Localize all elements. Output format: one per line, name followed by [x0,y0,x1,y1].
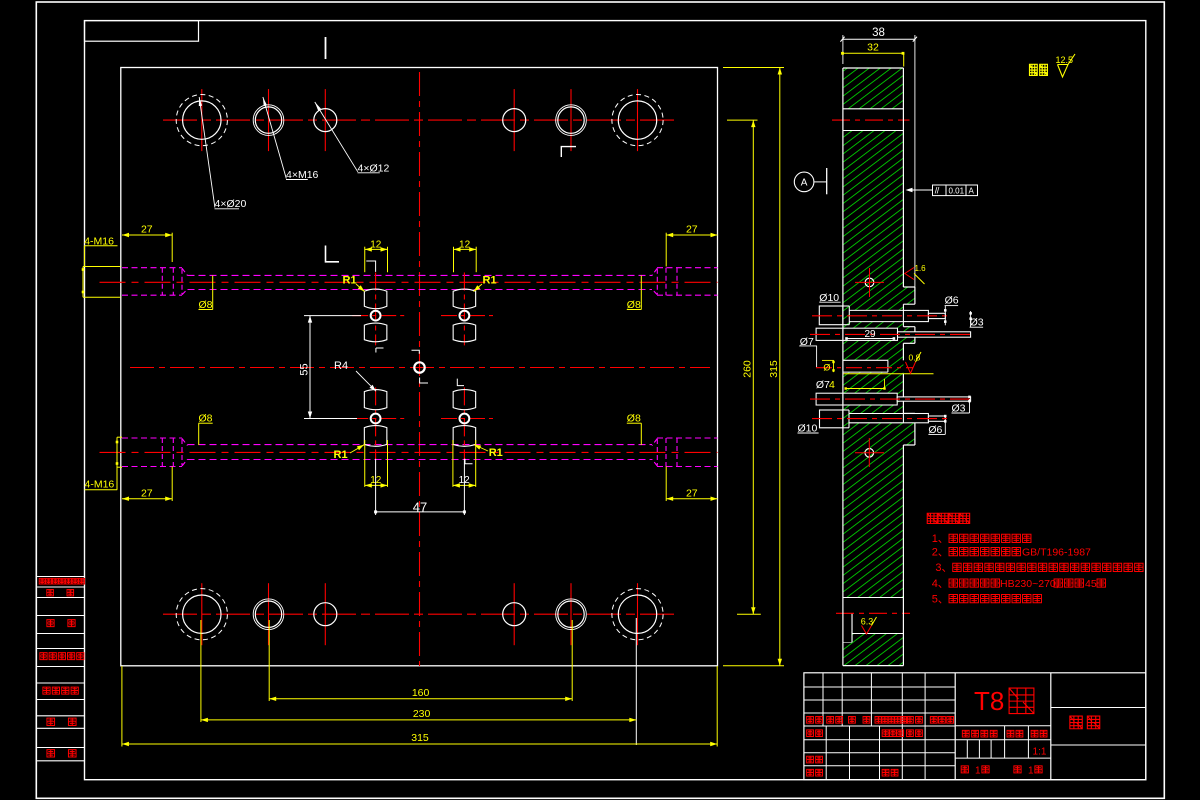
core pin upper ring x=375.6 [371,311,381,321]
M16 side hole end box (right) row y=452.4 [665,438,667,467]
svg-text:29: 29 [864,329,876,340]
title block vertical lines rows5-8 [825,726,827,780]
hole 4xO20 at (201.8,120.1) with counterbore [183,101,221,139]
section hole band bottom [842,598,905,634]
datum A symbol [794,172,814,192]
hole centerline vertical x=268.5 row 120.1 [268,89,270,151]
svg-text:R1: R1 [489,447,503,459]
core pin lower barrel 2 x=464.4 [453,426,476,447]
sprue circle bottom (section) [865,449,874,458]
top runner O8 hidden lines [188,274,653,276]
title row4 labels: biaoji chushu fenqu genggai qianming nianyueri [807,717,814,724]
core pin ring centerline horizontals x=375.6 [352,315,408,317]
M16 side hole thread lines (right) row y=282.3 [657,267,718,269]
dim 315 bottom [121,666,123,747]
left margin column rows [36,576,84,578]
core pin lower barrel 1 x=464.4 [453,390,476,410]
hole centerline vertical x=637.5 row 120.1 [637,89,639,151]
leader 4xO12 [315,102,358,172]
svg-text:45: 45 [1085,578,1097,590]
dim 12 bottom-left pin [364,440,366,487]
svg-text:12: 12 [459,239,471,250]
svg-text:T8: T8 [974,686,1004,716]
ROW A right stub O6 [903,310,928,321]
svg-text:1: 1 [975,766,981,777]
hole 4xM16 at (268.5,120.1) [255,107,281,133]
dim 27 bottom-right [666,498,717,500]
svg-text:4-M16: 4-M16 [85,478,115,490]
plan center horizontal centerline [130,367,710,369]
hole row centerline y=614.2 [163,613,677,615]
center slot [842,360,888,372]
core pin lower ring x=375.6 [371,414,381,424]
gate corner mark near center 2 [420,378,428,384]
svg-text:Ø7: Ø7 [816,379,830,391]
title row5: sheji biaozhunhua qianming [807,730,814,737]
M16 side hole end box (left) row y=452.4 [161,438,163,467]
ROW B' right stub O3 [897,397,970,401]
cap mini-dim bottom-left [116,437,118,490]
dim 260 right side [727,119,758,121]
sheets: gong 1 zhang di 1 zhang [961,766,968,773]
M16 side hole thread lines (right) row y=452.4 [657,437,718,439]
core pin column x=464.4 centerline (red) [463,273,465,346]
svg-text:5、: 5、 [932,594,949,606]
svg-text:Ø6: Ø6 [945,295,959,307]
svg-text:260: 260 [742,360,754,378]
svg-text:230: 230 [413,708,431,720]
svg-text:27: 27 [141,487,153,499]
hole centerline vertical x=268.5 row 614.2 [268,583,270,645]
plan view plate outline [121,68,718,666]
section hole band top (O12) [842,109,905,131]
tech requirements title [927,513,937,523]
core pin lower ring x=464.4 [460,414,470,424]
svg-text:315: 315 [411,732,429,744]
ROW A right stub O3 [928,313,945,318]
core pin lower barrel 1 x=375.6 [364,390,387,410]
hole 4xO12 at (514.2,120.1) [503,109,526,132]
ROW B' band y=399.1 [816,393,897,405]
M16 side hole thread lines (left) row y=452.4 [122,437,182,439]
bottom runner centerline (red) [100,451,718,453]
ROW B centerline [810,333,975,335]
ROW B right stub O3 [898,332,971,337]
center slot mini-dim (yellow) [822,359,834,361]
core pin upper barrel 1 x=375.6 [364,289,387,309]
svg-text:160: 160 [412,687,430,699]
leader 4xM16 [263,97,286,179]
title block right horizontals [1051,707,1146,709]
svg-text:32: 32 [867,42,879,54]
svg-text:HB230~270,: HB230~270, [1000,578,1059,590]
svg-text:R4: R4 [334,360,348,372]
dim 38 section [843,38,915,40]
surface mark on right face [905,268,914,280]
hole 4xO20 at (637.5,614.2) with counterbore [618,595,656,633]
section bottom notch [851,613,853,642]
core pin column x=375.6 centerline (red) [375,273,377,346]
dim 27 bottom-left [122,498,172,500]
svg-text:R1: R1 [483,275,497,287]
dim 55 vertical [304,315,361,317]
section hole band bottom centerline [836,612,910,614]
svg-text:1、: 1、 [932,533,949,545]
hole row centerline y=120.1 [163,119,677,121]
ROW B band y=334.4 [816,328,897,340]
runner taper (left) row y=452.4 [182,439,188,446]
svg-text:55: 55 [299,363,311,375]
hole 4xO12 at (325.3,120.1) [314,109,337,132]
section flange lower hatched [903,413,915,445]
top runner centerline (red) [100,281,718,283]
dim 27 top-right [666,234,717,236]
hole 4xO12 at (325.3,614.2) [314,603,337,626]
section mark corner top middle [561,147,576,157]
hole centerline vertical x=325.3 row 614.2 [324,583,326,645]
title block outline [804,673,1146,780]
svg-text:47: 47 [413,500,427,515]
section mark L [326,246,340,262]
runner taper (left) row y=282.3 [182,268,188,275]
svg-text:4×Ø20: 4×Ø20 [215,198,247,210]
M16 side hole thread lines (left) row y=282.3 [122,267,182,269]
ROW A flange notch recess [904,304,915,327]
leader 4xO20 [199,97,215,208]
center slot centerline [816,367,913,369]
svg-text:3、: 3、 [935,562,952,574]
title row7: shenhe [807,756,814,763]
ROW C right stub O6 [903,414,928,423]
left margin text: 签字 [47,718,55,725]
runner taper (right) row y=282.3 [652,268,657,275]
gate corner mark near center 1 [412,350,420,354]
hole centerline vertical x=514.2 row 614.2 [513,583,515,645]
svg-text:27: 27 [686,487,698,499]
ROW B internal dim 25 [847,338,894,340]
dim 27 top-left [122,234,172,236]
svg-text:0.01: 0.01 [949,186,965,195]
ROW C centerline [812,418,950,420]
hole 4xM16 at (571.0,614.2) [558,601,584,627]
svg-text:GB/T196-1987: GB/T196-1987 [1022,547,1091,559]
svg-text:27: 27 [141,223,153,235]
center sprue ring [414,362,424,372]
pin inner step mark left pin [366,261,375,272]
ROW C core pin cross-section y=418.5 [849,414,903,423]
plan center vertical centerline [419,72,421,666]
M16 side hole end box (left) row y=282.3 [161,268,163,296]
parallelism frame // 0.01 A [933,185,978,196]
dim 47 between pins [375,459,377,515]
svg-text:27: 27 [686,223,698,235]
core pin upper barrel 2 x=375.6 [364,323,387,342]
left margin text: 底图总号 [43,687,50,694]
hole 4xO20 at (201.8,614.2) with counterbore [183,595,221,633]
ROW A core pin cross-section y=315.6 [849,310,903,321]
gate corner mark near right pin [457,379,464,386]
ROW C right stub O3 [928,416,945,421]
gate corner mark near left pin [376,348,384,353]
ROW A centerline [812,315,950,317]
svg-text:1: 1 [1028,766,1034,777]
runner taper (right) row y=452.4 [652,439,657,446]
title block middle horizontals [955,725,1051,727]
svg-text:A: A [801,178,808,189]
svg-text:Ø: Ø [823,362,830,372]
bottom runner O8 hidden lines [188,444,653,446]
top-left reference box [85,21,199,42]
left margin text: 描图 [47,589,54,595]
left margin text: 旧底图总号 [40,653,47,660]
title row8: gongyi pizhun [807,769,814,776]
svg-text:4: 4 [829,379,835,391]
title block middle small verticals [966,740,968,758]
section mark I top [325,37,327,59]
svg-text:R1: R1 [334,449,348,461]
section flange upper hatched [903,287,915,343]
hole centerline vertical x=201.8 row 614.2 [201,583,203,645]
core pin upper ring x=464.4 [460,311,470,321]
dim 230 bottom [200,620,202,722]
hole centerline vertical x=325.3 row 120.1 [324,89,326,151]
title block vertical lines rows1-4 [822,673,824,726]
hole 4xM16 at (571.0,120.1) [558,107,584,133]
svg-text:Ø10: Ø10 [798,422,818,434]
dim 12 bottom-right pin (white text) [452,440,454,487]
title middle: jieduanbiaoji zhongliang bili [962,730,969,737]
hole centerline vertical x=637.5 row 614.2 [637,583,639,645]
svg-text:12: 12 [370,239,382,250]
hole 4xO20 at (637.5,120.1) with counterbore [618,101,656,139]
core pin upper barrel 2 x=464.4 [453,323,476,342]
svg-text:38: 38 [872,27,885,39]
svg-text:0.8: 0.8 [909,353,921,363]
section outline [842,68,844,666]
ROW B' centerline [810,398,975,400]
title block horizontal lines left part [804,686,955,688]
svg-text:R1: R1 [343,275,357,287]
dim 32 section (yellow) [843,52,904,54]
svg-text:315: 315 [768,360,780,378]
hole centerline vertical x=571.0 row 120.1 [570,89,572,151]
part name: xin xing (mold core) [1070,716,1082,729]
svg-text:1.6: 1.6 [915,264,927,273]
left margin text: 借(通)用件登记 [39,578,45,584]
M16 side hole end box (right) row y=282.3 [665,268,667,296]
cap mini-dim top-left [82,267,84,298]
sprue circle top (section) [865,278,874,287]
pin inner step mark right pin [465,459,473,464]
core pin lower barrel 2 x=375.6 [364,426,387,447]
left margin text: 描校 [47,620,54,627]
svg-text:4、: 4、 [932,578,949,590]
hole 4xO12 at (514.2,614.2) [503,603,526,626]
center slot surface line (yellow) [843,373,934,375]
dim 315 right side [723,67,784,69]
section body hatched [843,68,904,666]
dim 12 top-right pin [453,247,455,273]
dim 12 top-left pin [364,247,366,273]
svg-text:2、: 2、 [932,547,949,559]
hole centerline vertical x=514.2 row 120.1 [513,89,515,151]
left margin text: 日期 [47,750,55,757]
section hole band top centerline [832,119,910,121]
dim 160 bottom [268,620,270,701]
roughness note top-right: QiYu 12.5 [1029,64,1037,75]
title block main verticals [954,673,956,780]
hole centerline vertical x=571.0 row 614.2 [570,583,572,645]
hole 4xM16 at (268.5,614.2) [255,601,281,627]
svg-text:A: A [969,186,975,195]
core pin upper barrel 1 x=464.4 [453,289,476,309]
svg-text:1:1: 1:1 [1033,747,1047,758]
core pin ring centerline horizontals x=464.4 [441,315,497,317]
hole centerline vertical x=201.8 row 120.1 [201,89,203,151]
